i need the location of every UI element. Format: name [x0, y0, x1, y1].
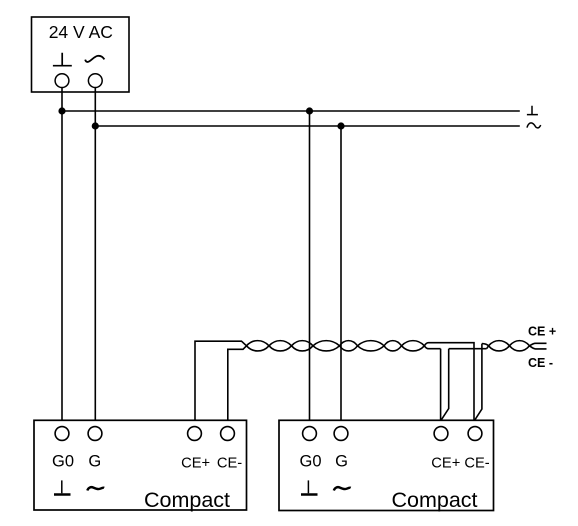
- junction dot AC bus / drop to right Compact G: [337, 122, 344, 129]
- svg-text:CE -: CE -: [528, 356, 553, 370]
- wire: left Compact CE- riser joining twisted pair bottom: [228, 341, 474, 421]
- svg-text:G0: G0: [52, 452, 74, 470]
- right Compact ground symbol: [307, 480, 309, 493]
- AC wave symbol at AC bus end: [527, 123, 541, 128]
- right Compact terminal circle CE-: [468, 427, 482, 441]
- left Compact controller box: [34, 420, 247, 510]
- wire: ground bus horizontal: [62, 110, 520, 112]
- svg-text:CE+: CE+: [431, 456, 460, 472]
- terminal circle 24 V AC left: [55, 74, 69, 88]
- wire: AC bus horizontal: [95, 125, 520, 127]
- right Compact AC wave symbol: [334, 487, 351, 490]
- right Compact terminal circle G: [334, 427, 348, 441]
- junction dot at right terminal / AC bus: [92, 122, 99, 129]
- svg-text:24 V AC: 24 V AC: [49, 22, 113, 42]
- left Compact terminal circle CE-: [221, 427, 235, 441]
- svg-text:CE-: CE-: [217, 456, 242, 472]
- twisted pair right segment strand from CE- cap: [482, 341, 547, 351]
- cable tap to right Compact CE+: right side with chamfer: [441, 349, 449, 421]
- cable tap to right Compact CE-: right side with chamfer: [475, 344, 482, 421]
- svg-text:G: G: [88, 452, 101, 470]
- cable tap to right Compact CE+: left side: [440, 349, 442, 421]
- right Compact controller box: [279, 420, 494, 510]
- junction dot ground bus / drop to right Compact G0: [306, 107, 313, 114]
- terminal circle 24 V AC right: [88, 74, 102, 88]
- svg-text:CE-: CE-: [464, 456, 489, 472]
- svg-text:Compact: Compact: [392, 488, 478, 512]
- right Compact terminal circle G0: [303, 427, 317, 441]
- svg-text:CE+: CE+: [181, 456, 210, 472]
- ground symbol at ground bus end: [527, 106, 538, 115]
- svg-text:G: G: [335, 452, 348, 470]
- right Compact terminal circle CE+: [434, 427, 448, 441]
- AC wave symbol inside 24 V AC box: [85, 56, 104, 62]
- left Compact ground symbol: [61, 480, 63, 493]
- left Compact terminal circle G: [88, 427, 102, 441]
- transformer box 24 V AC: [32, 17, 130, 92]
- left Compact AC wave symbol: [87, 487, 104, 490]
- wire: drop from AC bus to right Compact G: [340, 126, 342, 420]
- svg-text:Compact: Compact: [144, 488, 230, 512]
- cable tap outline: bar bottom line right part to braid: [449, 348, 487, 350]
- junction dot at left terminal / ground bus: [58, 107, 65, 114]
- left Compact terminal circle CE+: [188, 427, 202, 441]
- svg-text:CE +: CE +: [528, 325, 556, 339]
- svg-text:G0: G0: [299, 452, 321, 470]
- wire: left transformer terminal down to left Compact G0: [61, 88, 63, 421]
- ground symbol inside 24 V AC box: [53, 53, 72, 66]
- wire: drop from ground bus to right Compact G0: [309, 111, 311, 420]
- wire: right transformer terminal down to left Compact G: [94, 88, 96, 421]
- wire: left Compact CE+ riser joining twisted pair top: [195, 341, 441, 421]
- twisted pair right segment strand from bar: [487, 341, 547, 351]
- left Compact terminal circle G0: [55, 427, 69, 441]
